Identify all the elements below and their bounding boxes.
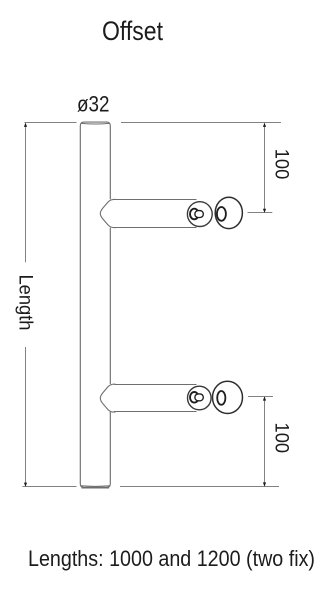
bottom bracket centre extension line xyxy=(248,396,273,398)
top rose circle xyxy=(215,197,242,228)
top bracket cone (left tip) xyxy=(100,199,115,227)
svg-text:Offset: Offset xyxy=(102,16,164,46)
svg-text:Length: Length xyxy=(15,275,36,331)
dim line 100 top xyxy=(264,123,266,212)
top bracket end-cap circle xyxy=(187,202,212,227)
Length dimension line xyxy=(25,123,27,486)
bottom rose hole ellipse xyxy=(217,391,225,405)
top keyhole ring xyxy=(190,209,199,220)
top bracket centre extension line xyxy=(248,212,273,214)
top keyhole tab xyxy=(195,211,203,218)
100 top arrow down xyxy=(263,209,266,213)
svg-text:100: 100 xyxy=(270,149,291,180)
top rose hole ellipse xyxy=(217,207,226,221)
svg-text:ø32: ø32 xyxy=(77,92,110,117)
Length dim arrow up xyxy=(24,123,27,127)
100 bottom arrow down xyxy=(263,482,266,486)
bottom rose circle xyxy=(213,381,243,413)
bottom bracket tube xyxy=(114,385,197,412)
Length dim arrow down xyxy=(24,483,27,487)
bottom reference line xyxy=(23,486,280,488)
handle bar xyxy=(80,122,110,488)
bar bottom end-cap line xyxy=(81,486,110,488)
top reference line xyxy=(25,122,282,124)
100 bottom arrow up xyxy=(263,396,266,400)
bar top end-cap line xyxy=(81,122,109,125)
bottom bracket cone (left tip) xyxy=(100,384,115,412)
top bracket tube xyxy=(114,200,197,228)
bottom keyhole ring xyxy=(190,392,199,403)
bottom bracket end-cap circle xyxy=(188,386,212,410)
dim line 100 bottom xyxy=(264,397,266,486)
bottom keyhole tab xyxy=(195,394,203,401)
svg-text:100: 100 xyxy=(271,423,292,454)
100 top arrow up xyxy=(263,123,266,127)
svg-text:Lengths: 1000 and 1200 (two fi: Lengths: 1000 and 1200 (two fix) xyxy=(28,546,315,571)
